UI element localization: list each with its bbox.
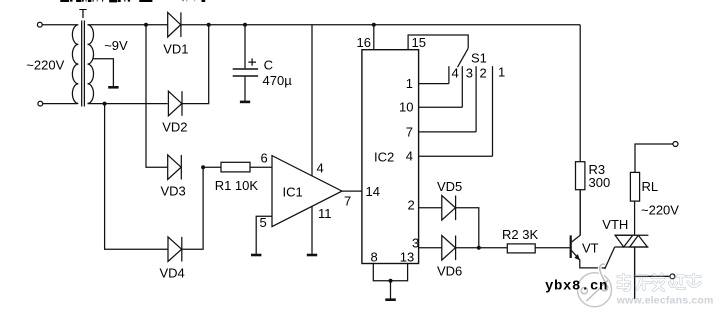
- switch S1 arm: [458, 48, 469, 67]
- wire top rail: [88, 24, 168, 26]
- node dot VD5-VD6: [477, 246, 481, 250]
- wire triac bottom lead: [634, 247, 636, 299]
- svg-text:C: C: [264, 58, 273, 73]
- capacitor C lower stem: [244, 77, 246, 101]
- wire IC2 pin10: [419, 106, 463, 108]
- diode VD4: [168, 237, 182, 262]
- svg-text:10: 10: [399, 100, 413, 115]
- node terminal circle right top: [673, 142, 678, 147]
- wire IC1 output to IC2 pin14: [342, 190, 362, 192]
- switch S1 contact 1: [492, 66, 494, 156]
- diode VD2: [168, 91, 182, 116]
- svg-text:www.elecfans.com: www.elecfans.com: [616, 295, 714, 307]
- triac gate wire: [605, 247, 615, 269]
- svg-text:~9V: ~9V: [104, 38, 128, 53]
- svg-text:R1 10K: R1 10K: [215, 178, 259, 193]
- resistor R1: [221, 162, 250, 172]
- diode VD3: [168, 155, 182, 180]
- transformer T primary winding: [72, 25, 78, 104]
- node dot VD3-R1: [201, 165, 205, 169]
- svg-text:5: 5: [260, 215, 267, 230]
- node dot rail-C: [243, 23, 247, 27]
- svg-text:VD1: VD1: [163, 41, 188, 56]
- wire R1 to IC1 pin6: [250, 166, 272, 168]
- svg-text:S1: S1: [471, 51, 487, 66]
- wire primary top: [42, 24, 77, 26]
- wire IC2 pin15 to switch: [408, 35, 468, 50]
- diode VD5: [442, 196, 456, 221]
- ground IC1 pin11: [307, 254, 317, 257]
- watermark logo nodes: [581, 287, 587, 293]
- svg-text:6: 6: [261, 150, 268, 165]
- svg-text:8: 8: [371, 249, 378, 264]
- triac VTH right triangle: [630, 235, 648, 247]
- triac VTH top bar: [615, 234, 649, 236]
- capacitor C plates: [233, 68, 258, 70]
- svg-text:13: 13: [400, 249, 414, 264]
- capacitor C stem: [244, 25, 246, 69]
- wire top rail after VD1: [181, 24, 580, 26]
- transistor VT base bar: [570, 235, 572, 258]
- transistor VT emitter arrow: [574, 254, 579, 260]
- svg-text:1: 1: [498, 65, 505, 80]
- ground IC2: [390, 281, 392, 299]
- wire VD4 cathode riser: [182, 167, 203, 249]
- svg-text:2: 2: [480, 66, 487, 81]
- node terminal circle bottom-left: [38, 101, 43, 106]
- svg-text:7: 7: [406, 125, 413, 140]
- svg-text:VD2: VD2: [162, 119, 187, 134]
- svg-text:4: 4: [317, 160, 324, 175]
- wire secondary center tap: [93, 59, 114, 86]
- svg-text:VD4: VD4: [160, 265, 185, 280]
- node dot IC2 ground: [389, 279, 393, 283]
- wire primary bottom: [43, 103, 78, 105]
- IC2 box: [362, 50, 419, 264]
- watermark logo swoosh: [587, 280, 609, 301]
- wire RL top to terminal: [635, 144, 673, 172]
- svg-text:~220V: ~220V: [26, 57, 64, 72]
- wire to bottom terminal: [635, 275, 670, 277]
- top cut-off caption fragments: [60, 0, 205, 2]
- svg-text:~220V: ~220V: [641, 203, 679, 218]
- node dot rail-VD2: [207, 23, 211, 27]
- wire VD6 to R2: [456, 247, 508, 249]
- node dot secondary bottom: [103, 102, 107, 106]
- diode VD1: [168, 12, 181, 37]
- svg-text:14: 14: [366, 184, 380, 199]
- wire IC2 pin3 to VD6: [419, 247, 442, 249]
- svg-text:IC1: IC1: [283, 185, 303, 200]
- switch S1 contact 3: [461, 66, 463, 107]
- wire overlays through watermark: [635, 247, 670, 299]
- svg-text:4: 4: [452, 66, 459, 81]
- switch S1 contact 4: [448, 66, 450, 83]
- resistor R2: [507, 244, 535, 253]
- wire IC2 pin7: [419, 131, 477, 133]
- svg-text:470µ: 470µ: [263, 73, 293, 88]
- diode VD6: [442, 236, 456, 261]
- transistor VT collector: [572, 190, 581, 242]
- wire IC1 pin5: [256, 216, 272, 254]
- wire R1 to dot: [203, 166, 221, 168]
- svg-text:1: 1: [406, 76, 413, 91]
- node dot rail-pin16: [372, 23, 376, 27]
- transistor VT emitter: [572, 251, 606, 268]
- wire triac top lead: [634, 201, 636, 235]
- svg-text:IC2: IC2: [374, 149, 394, 164]
- wire IC2 pin8 pin13 to ground: [373, 264, 407, 281]
- svg-text:2: 2: [408, 198, 415, 213]
- wire IC1 pin11 riser: [311, 206, 313, 254]
- svg-text:VD3: VD3: [161, 183, 186, 198]
- svg-text:VTH: VTH: [602, 217, 628, 232]
- svg-text:VD5: VD5: [437, 179, 462, 194]
- transformer T secondary winding: [88, 25, 94, 104]
- wire VD5 out riser: [456, 208, 479, 248]
- svg-text:7: 7: [344, 194, 351, 209]
- switch S1 contact 2: [475, 66, 477, 132]
- triac VTH left triangle: [615, 235, 633, 247]
- wire IC2 pin16 riser: [373, 25, 375, 50]
- wire VD2 cathode riser: [182, 25, 209, 104]
- svg-text:3: 3: [412, 235, 419, 250]
- wire riser node A to VD3: [146, 25, 168, 168]
- svg-text:11: 11: [318, 206, 332, 221]
- wire IC2 pin4: [419, 155, 493, 157]
- svg-text:300: 300: [589, 175, 611, 190]
- wire IC2 pin2 to VD5: [419, 207, 442, 209]
- svg-text:ybx8.cn: ybx8.cn: [545, 279, 608, 295]
- triac VTH bottom bar: [615, 246, 649, 248]
- capacitor plus sign: [248, 58, 256, 65]
- node terminal circle right bottom: [670, 274, 675, 279]
- svg-text:VD6: VD6: [437, 263, 462, 278]
- node terminal circle top-left: [37, 22, 42, 27]
- svg-text:15: 15: [412, 35, 426, 50]
- ground IC1 pin5: [251, 254, 261, 257]
- svg-text:4: 4: [406, 148, 413, 163]
- ground capacitor: [240, 101, 250, 104]
- svg-text:T: T: [79, 6, 87, 21]
- watermark CJK chars faked: [618, 274, 700, 291]
- watermark elecfans logo circle: [578, 264, 612, 307]
- wire VD4 feed riser: [105, 104, 168, 250]
- svg-text:R2 3K: R2 3K: [502, 227, 538, 242]
- svg-text:3: 3: [466, 66, 473, 81]
- svg-text:VT: VT: [582, 241, 599, 256]
- op-amp IC1: [272, 156, 342, 227]
- resistor RL: [630, 172, 639, 201]
- ground transformer center tap: [108, 86, 118, 89]
- transformer core: [82, 21, 85, 107]
- resistor R3: [576, 162, 585, 190]
- wire secondary bottom out: [88, 103, 168, 105]
- wire R2 to VT base: [535, 247, 569, 249]
- wire R3 bottom to collector: [579, 190, 581, 236]
- svg-text:16: 16: [357, 35, 371, 50]
- node dot rail-VD3 feed: [144, 23, 148, 27]
- wire IC1 pin4 riser: [311, 25, 313, 176]
- wire right down to R3: [579, 25, 581, 162]
- svg-text:RL: RL: [642, 179, 659, 194]
- wire IC2 pin1: [419, 83, 449, 85]
